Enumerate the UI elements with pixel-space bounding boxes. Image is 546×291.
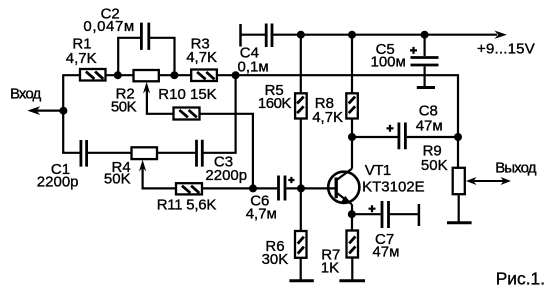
svg-text:50K: 50K xyxy=(421,157,448,174)
svg-text:4,7K: 4,7K xyxy=(186,49,217,66)
svg-text:0,047м: 0,047м xyxy=(83,18,134,35)
svg-text:R10 15K: R10 15K xyxy=(158,86,216,103)
svg-text:50K: 50K xyxy=(111,99,137,116)
svg-text:+9...15V: +9...15V xyxy=(477,40,535,57)
svg-text:R11 5,6K: R11 5,6K xyxy=(157,197,217,214)
svg-text:KT3102E: KT3102E xyxy=(362,179,425,196)
svg-text:4,7м: 4,7м xyxy=(246,205,277,222)
svg-text:100м: 100м xyxy=(371,54,406,71)
svg-text:VT1: VT1 xyxy=(365,162,391,179)
svg-text:Рис.1.: Рис.1. xyxy=(496,269,545,289)
svg-text:50K: 50K xyxy=(104,171,131,188)
svg-text:4,7K: 4,7K xyxy=(312,109,343,126)
svg-text:47м: 47м xyxy=(372,244,399,261)
svg-text:47м: 47м xyxy=(416,117,443,134)
svg-text:2200p: 2200p xyxy=(205,167,247,184)
svg-text:Выход: Выход xyxy=(495,160,537,177)
svg-text:30K: 30K xyxy=(262,251,289,268)
svg-text:160K: 160K xyxy=(258,95,292,112)
svg-text:0,1м: 0,1м xyxy=(238,59,269,76)
svg-text:1K: 1K xyxy=(321,259,339,276)
svg-text:2200p: 2200p xyxy=(37,173,79,190)
svg-text:4,7K: 4,7K xyxy=(66,50,97,67)
svg-text:Вход: Вход xyxy=(10,85,41,102)
